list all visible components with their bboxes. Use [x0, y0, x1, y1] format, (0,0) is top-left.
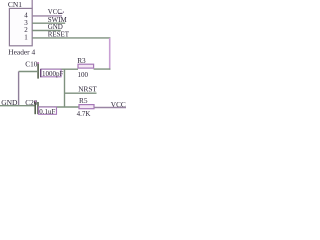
wire mid rail vertical — [64, 69, 66, 107]
capacitor C10 left plate — [37, 62, 39, 78]
wire C20 right to R5 — [38, 106, 79, 108]
svg-text:NRST: NRST — [78, 84, 97, 93]
capacitor C20 right plate — [37, 102, 39, 114]
power port VCC bar — [58, 12, 62, 14]
capacitor C20 left plate pink tip — [34, 101, 36, 102]
svg-text:R5: R5 — [79, 96, 88, 105]
svg-text:0.1uF: 0.1uF — [39, 108, 55, 116]
svg-text:Header 4: Header 4 — [8, 47, 35, 56]
svg-text:R3: R3 — [77, 56, 86, 65]
wire C10 left — [19, 71, 38, 73]
svg-text:C20: C20 — [25, 98, 38, 107]
wire NRST stub — [65, 92, 97, 94]
background — [0, 0, 128, 120]
wire stub above pin4 column — [31, 0, 33, 8]
wire pin2 GND — [32, 30, 61, 32]
resistor R3 body — [78, 64, 94, 68]
capacitor C10 plate pink tip — [37, 62, 39, 64]
value box left plate-like edge — [40, 69, 42, 77]
wire R3 right — [94, 68, 111, 70]
svg-text:100: 100 — [78, 71, 89, 79]
svg-text:RESET: RESET — [48, 30, 70, 38]
wire R3 left to cap node — [41, 68, 78, 70]
value box 1000pF — [41, 69, 61, 77]
connector CN1 body — [9, 8, 32, 45]
wire pin3 SWIM — [32, 22, 65, 24]
wire pin1 RESET horizontal — [32, 37, 110, 39]
wire pin4 VCC — [32, 15, 62, 17]
value box 0.1uF — [39, 107, 57, 114]
svg-text:1: 1 — [24, 33, 28, 41]
svg-text:4.7K: 4.7K — [77, 110, 91, 118]
wire RESET vertical drop — [109, 38, 111, 70]
capacitor C20 left plate — [34, 101, 36, 114]
resistor R5 body — [79, 105, 94, 109]
power port VCC tick — [62, 11, 64, 12]
svg-text:C10: C10 — [25, 60, 38, 69]
wire left rail down — [18, 72, 20, 106]
svg-text:1000pF: 1000pF — [42, 70, 64, 78]
wire R5 right to VCC — [94, 107, 126, 109]
wire GND row — [0, 105, 35, 107]
svg-text:VCC: VCC — [111, 100, 126, 109]
